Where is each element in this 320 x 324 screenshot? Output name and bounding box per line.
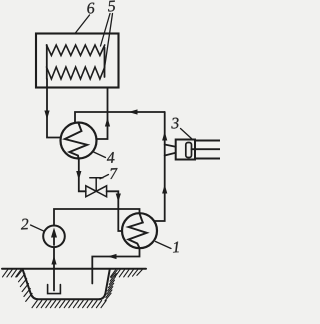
return wire: evaporator 1 bottom to well <box>92 248 139 283</box>
valve 7 stem <box>95 178 97 191</box>
riser wire: top corner down to exchanger 1 right <box>154 112 165 221</box>
hatching along pit right wall <box>105 270 117 301</box>
wire: pump 2 to evaporator 1 top <box>54 209 140 226</box>
hatching under pit bottom <box>32 301 106 308</box>
duct box 6 <box>36 34 119 88</box>
flow arrow up on riser below consumer 3 <box>162 185 167 194</box>
label 4 <box>171 118 179 129</box>
flow arrow left on return wire <box>108 254 117 259</box>
leader line for 3 <box>181 129 193 140</box>
zigzag inside evaporator 1 <box>129 213 147 248</box>
ground hatching left of pit <box>3 270 21 277</box>
label 1 <box>173 242 179 253</box>
consumer 3 pipes to the right <box>195 140 220 142</box>
label 7 <box>106 152 114 163</box>
zigzag inside exchanger 4 <box>65 123 88 158</box>
flow arrow down to valve <box>76 171 81 180</box>
wire: valve 7 outlet to evaporator 1 left <box>107 191 123 231</box>
leader line for 7 <box>100 175 109 179</box>
flow arrow up on right pipe <box>105 118 110 127</box>
label 3 <box>110 168 118 179</box>
label 6 <box>87 2 95 13</box>
evaporator 1 <box>122 213 157 248</box>
well pit outline <box>23 269 110 299</box>
wire: box to evaporator 4 left <box>47 88 61 138</box>
leader line for 1 <box>156 242 172 249</box>
suction wire: well to pump 2 <box>53 247 55 290</box>
leader line for 6 <box>75 15 90 34</box>
flow arrow down after valve <box>116 194 121 203</box>
flow arrow up on riser above consumer 3 <box>162 132 167 141</box>
ground hatching right of pit <box>111 270 143 277</box>
coil right header bar <box>104 48 106 78</box>
flow arrow left on top wire <box>129 109 138 114</box>
heat exchanger (condenser) 4 <box>61 123 97 159</box>
valve 7 body <box>86 186 96 197</box>
consumer 3 inner element <box>186 143 192 158</box>
wire: evaporator 4 right up to box <box>97 88 108 140</box>
ground surface line <box>2 268 146 270</box>
leader line for 4 <box>93 152 106 158</box>
coil 5 zigzag row 1 <box>47 45 105 56</box>
label 2 <box>20 219 28 230</box>
pump 2 internal arrow <box>53 232 55 245</box>
coil 5 zigzag row 2 <box>47 67 105 79</box>
consumer connection stubs <box>165 145 176 147</box>
pump 2 <box>43 226 65 248</box>
leader line for 2 <box>31 225 45 231</box>
flow arrow up on suction pipe <box>51 256 56 265</box>
wire: riser top to evaporator 4 top <box>75 112 165 123</box>
consumer 3 box <box>176 140 195 160</box>
leader lines for 5 <box>101 14 111 47</box>
hatching along pit left wall <box>17 269 32 302</box>
wire: exchanger 4 bottom to valve 7 <box>79 159 86 192</box>
suction strainer foot <box>48 285 61 294</box>
label 5 <box>108 1 116 12</box>
flow arrow down on left pipe <box>44 111 49 120</box>
coil left header bar <box>46 45 48 79</box>
